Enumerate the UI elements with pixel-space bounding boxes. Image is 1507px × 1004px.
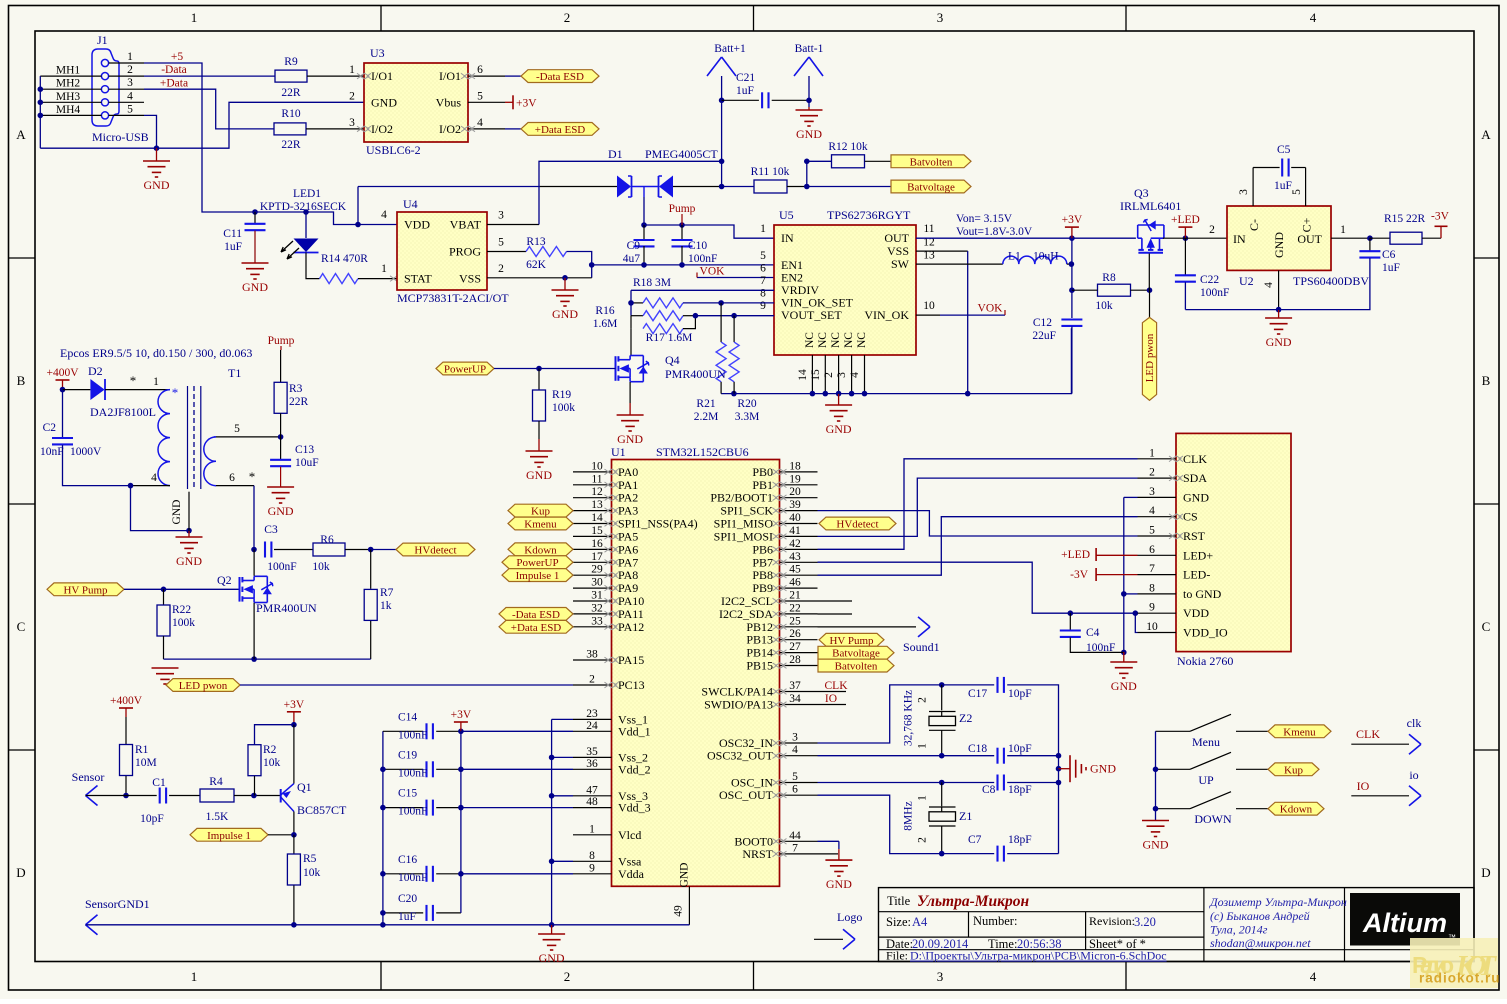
wire OSC_IN: [818, 782, 942, 784]
svg-text:PB13: PB13: [746, 633, 773, 647]
svg-text:4u7: 4u7: [623, 253, 641, 265]
svg-text:*: *: [249, 469, 256, 484]
svg-text:GND: GND: [552, 307, 578, 321]
svg-text:VOK: VOK: [700, 266, 726, 278]
svg-text:radiokot.ru: radiokot.ru: [1419, 971, 1501, 986]
svg-text:18: 18: [789, 460, 801, 472]
wire I2C2_SCL stub: [818, 600, 853, 602]
svg-text:100nF: 100nF: [398, 767, 427, 779]
svg-text:GND: GND: [1111, 679, 1137, 693]
switch UP: [1156, 768, 1191, 770]
svg-text:GND: GND: [1272, 232, 1286, 258]
port Batvolten: [818, 659, 894, 672]
svg-text:8: 8: [760, 288, 766, 300]
svg-text:Batt-1: Batt-1: [795, 43, 824, 55]
svg-text:Pump: Pump: [669, 203, 696, 215]
svg-text:6: 6: [792, 784, 798, 796]
svg-text:6: 6: [1149, 544, 1155, 556]
svg-text:5: 5: [1291, 189, 1303, 195]
svg-text:+LED: +LED: [1171, 214, 1200, 226]
svg-text:Batt+1: Batt+1: [714, 43, 746, 55]
svg-text:PROG: PROG: [449, 245, 481, 259]
svg-text:3: 3: [1149, 486, 1155, 498]
svg-text:22uF: 22uF: [1032, 330, 1056, 342]
resistor R1: [125, 717, 127, 744]
svg-text:CS: CS: [1183, 510, 1198, 524]
svg-text:GND: GND: [176, 554, 202, 568]
svg-text:MCP73831T-2ACI/OT: MCP73831T-2ACI/OT: [397, 291, 509, 305]
svg-text:U4: U4: [403, 197, 418, 211]
svg-text:4: 4: [1263, 282, 1275, 288]
svg-text:PA6: PA6: [618, 542, 638, 556]
svg-text:MH1: MH1: [56, 65, 81, 77]
IC U4 MCP73831T-2ACI/OT: [397, 212, 487, 290]
svg-text:R5: R5: [303, 853, 317, 865]
svg-text:HVdetect: HVdetect: [836, 519, 878, 531]
power +LED: [1178, 226, 1192, 228]
svg-text:27: 27: [789, 641, 801, 653]
port Batvolten: [891, 155, 971, 168]
svg-text:VDD_IO: VDD_IO: [1183, 626, 1228, 640]
wire VSS U5: [916, 250, 968, 252]
svg-text:GND: GND: [826, 422, 852, 436]
svg-text:1: 1: [589, 823, 595, 835]
wire VSS: [487, 277, 592, 279]
svg-text:1: 1: [381, 263, 387, 275]
ground: [242, 262, 269, 264]
svg-text:100nF: 100nF: [1086, 642, 1115, 654]
svg-text:GND: GND: [268, 504, 294, 518]
svg-text:SWCLK/PA14: SWCLK/PA14: [701, 685, 773, 699]
svg-text:3: 3: [1238, 189, 1250, 195]
svg-text:1: 1: [1149, 447, 1155, 459]
svg-text:R20: R20: [737, 398, 756, 410]
svg-text:3.20: 3.20: [1134, 915, 1156, 929]
svg-text:Logo: Logo: [837, 910, 862, 924]
wire EN1 bus: [592, 264, 774, 266]
svg-text:Size:: Size:: [886, 915, 911, 929]
svg-text:3: 3: [498, 210, 504, 222]
svg-text:C11: C11: [223, 228, 242, 240]
diode D2: [63, 389, 91, 391]
capacitor C4: [1069, 613, 1071, 630]
svg-text:+LED: +LED: [1061, 549, 1090, 561]
switch DOWN: [1156, 808, 1191, 810]
port HV Pump: [819, 633, 884, 646]
svg-text:C5: C5: [1277, 144, 1291, 156]
svg-text:11: 11: [923, 223, 934, 235]
svg-text:Ультра-Микрон: Ультра-Микрон: [917, 893, 1030, 910]
svg-text:IN: IN: [1233, 232, 1246, 246]
svg-text:R18 3M: R18 3M: [633, 277, 671, 289]
svg-text:25: 25: [789, 615, 801, 627]
connector J1 Micro-USB: [92, 49, 119, 126]
svg-text:Altium: Altium: [1362, 908, 1447, 938]
svg-text:Batvolten: Batvolten: [910, 156, 953, 168]
wire Vdd bus: [461, 730, 573, 732]
svg-text:37: 37: [789, 680, 801, 692]
svg-text:I/O1: I/O1: [439, 69, 461, 83]
svg-text:OSC32_OUT: OSC32_OUT: [707, 749, 774, 763]
svg-text:Vout=1.8V-3.0V: Vout=1.8V-3.0V: [956, 226, 1033, 238]
wire usb gnd: [40, 115, 156, 148]
wire U2 out: [1331, 237, 1370, 239]
capacitor C2: [62, 390, 64, 438]
svg-text:GND: GND: [144, 178, 170, 192]
resistor R20: [733, 316, 735, 342]
wire -Data: [144, 75, 275, 77]
svg-text:3.3M: 3.3M: [735, 411, 760, 423]
transistor Q2 PMR400UN: [239, 577, 241, 602]
capacitor C6: [1369, 238, 1371, 251]
svg-text:R19: R19: [552, 389, 571, 401]
svg-text:VOUT_SET: VOUT_SET: [781, 308, 842, 322]
wire Q3 gate: [1148, 254, 1150, 291]
power +3V: [287, 711, 301, 713]
svg-text:U2: U2: [1239, 274, 1254, 288]
svg-text:BC857CT: BC857CT: [297, 803, 347, 817]
wire PB7-VDD: [818, 562, 1138, 613]
svg-text:38: 38: [586, 649, 598, 661]
svg-text:1.6M: 1.6M: [593, 318, 618, 330]
resistor R3: [280, 350, 282, 382]
svg-text:Q2: Q2: [217, 573, 232, 587]
svg-text:7: 7: [760, 275, 766, 287]
svg-text:Pump: Pump: [268, 335, 295, 347]
svg-text:VDD: VDD: [1183, 606, 1209, 620]
svg-text:100nF: 100nF: [398, 806, 427, 818]
svg-text:C20: C20: [398, 893, 417, 905]
wire pump node: [644, 197, 774, 238]
svg-text:2.2M: 2.2M: [694, 411, 719, 423]
resistor R5: [293, 835, 295, 854]
port PowerUP: [502, 556, 573, 569]
wire VIN_OK: [916, 314, 940, 316]
svg-text:GND: GND: [1143, 838, 1169, 852]
svg-text:1: 1: [191, 969, 198, 984]
wire MH bus: [40, 75, 101, 77]
power +3V: [505, 101, 513, 103]
svg-text:2: 2: [349, 90, 355, 102]
svg-text:R15 22R: R15 22R: [1384, 213, 1426, 225]
port Batvoltage: [891, 180, 971, 193]
svg-text:GND: GND: [371, 95, 397, 109]
svg-text:PB6: PB6: [752, 542, 773, 556]
port +Data ESD: [499, 620, 573, 633]
diode D1 PMEG4005CT: [617, 176, 631, 198]
resistor R16: [631, 315, 643, 317]
svg-text:PA10: PA10: [618, 594, 644, 608]
svg-text:to GND: to GND: [1183, 587, 1222, 601]
svg-text:PB9: PB9: [752, 581, 773, 595]
svg-text:Batvoltage: Batvoltage: [907, 182, 955, 194]
svg-text:SPI1_SCK: SPI1_SCK: [720, 504, 773, 518]
svg-text:CLK: CLK: [1183, 452, 1207, 466]
wire PROG: [487, 251, 526, 253]
Altium logo: [1350, 893, 1460, 946]
svg-text:10uH: 10uH: [1033, 251, 1059, 263]
svg-text:SPI1_NSS(PA4): SPI1_NSS(PA4): [618, 517, 698, 531]
svg-text:47: 47: [586, 784, 598, 796]
svg-text:3: 3: [349, 117, 355, 129]
resistor R7: [370, 550, 372, 589]
svg-text:C12: C12: [1033, 317, 1052, 329]
svg-text:2: 2: [564, 10, 571, 25]
svg-text:GND: GND: [526, 468, 552, 482]
capacitor C3: [264, 542, 266, 558]
svg-text:R11 10k: R11 10k: [751, 166, 790, 178]
svg-text:46: 46: [789, 577, 801, 589]
svg-text:IO: IO: [825, 693, 837, 705]
svg-text:B: B: [17, 373, 26, 388]
svg-text:100k: 100k: [172, 617, 195, 629]
svg-text:NC: NC: [804, 332, 816, 348]
svg-text:R14 470R: R14 470R: [321, 253, 368, 265]
svg-text:MH2: MH2: [56, 78, 81, 90]
svg-text:PB7: PB7: [752, 555, 773, 569]
svg-text:PowerUP: PowerUP: [516, 557, 558, 569]
svg-text:10k: 10k: [312, 561, 330, 573]
svg-text:TPS60400DBV: TPS60400DBV: [1293, 274, 1369, 288]
svg-text:3: 3: [127, 77, 133, 89]
svg-text:17: 17: [591, 551, 603, 563]
svg-text:C2: C2: [43, 422, 57, 434]
svg-text:+3V: +3V: [1062, 214, 1083, 226]
svg-text:R16: R16: [595, 305, 614, 317]
svg-text:R4: R4: [209, 776, 223, 788]
svg-text:19: 19: [789, 473, 801, 485]
capacitor C11: [254, 212, 256, 224]
svg-text:1: 1: [349, 64, 355, 76]
svg-text:C14: C14: [398, 711, 417, 723]
wire T1 core gnd: [188, 492, 190, 531]
svg-text:CLK: CLK: [1356, 727, 1380, 741]
svg-text:GND: GND: [796, 127, 822, 141]
wire OSC32_IN: [818, 685, 942, 743]
resistor R15: [1370, 237, 1390, 239]
resistor R4: [200, 789, 234, 802]
svg-text:PA0: PA0: [618, 465, 638, 479]
port Sound1: [818, 626, 917, 628]
svg-text:C6: C6: [1382, 249, 1396, 261]
svg-text:C7: C7: [968, 834, 982, 846]
svg-text:-3V: -3V: [1070, 569, 1089, 581]
svg-text:C4: C4: [1086, 627, 1100, 639]
title block: [879, 888, 1475, 962]
svg-text:2: 2: [1209, 224, 1215, 236]
wire PB6-CLK: [818, 459, 1138, 550]
transistor Q1 BC857CT: [280, 789, 282, 803]
svg-text:1: 1: [1340, 224, 1346, 236]
svg-text:DA2JF8100L: DA2JF8100L: [90, 405, 156, 419]
wire +3V rail: [916, 237, 1136, 239]
resistor R2: [255, 725, 294, 745]
port Kdown: [1268, 802, 1324, 815]
wire R17 to Q4: [630, 329, 632, 356]
svg-text:10uF: 10uF: [295, 457, 319, 469]
svg-text:Vdd_1: Vdd_1: [618, 724, 651, 738]
svg-text:VOK: VOK: [978, 303, 1004, 315]
wire +Data: [144, 89, 274, 129]
svg-text:1uF: 1uF: [736, 85, 754, 97]
port Kdown: [508, 543, 573, 556]
svg-text:8: 8: [1149, 582, 1155, 594]
wire U5 NC pins: [811, 355, 813, 394]
svg-text:SWDIO/PA13: SWDIO/PA13: [704, 698, 773, 712]
svg-text:2: 2: [589, 674, 595, 686]
ground: [1278, 310, 1280, 318]
capacitor C13: [280, 437, 282, 460]
resistor R22: [163, 589, 165, 605]
ground: [838, 394, 840, 405]
svg-text:39: 39: [789, 499, 801, 511]
svg-text:PB1: PB1: [752, 478, 773, 492]
svg-text:44: 44: [789, 830, 801, 842]
svg-text:+Data ESD: +Data ESD: [511, 622, 562, 634]
svg-text:L1: L1: [1008, 251, 1021, 263]
transistor Q3 IRLML6401: [1138, 220, 1164, 253]
power -3V: [1440, 226, 1442, 238]
wire OSC32_OUT: [818, 755, 942, 757]
svg-text:VSS: VSS: [887, 244, 909, 258]
wire T1 pin6: [216, 485, 254, 487]
port Impulse 1: [502, 569, 573, 582]
svg-text:R8: R8: [1102, 272, 1116, 284]
svg-text:I/O2: I/O2: [439, 122, 461, 136]
svg-text:40: 40: [789, 512, 801, 524]
svg-text:6: 6: [477, 64, 483, 76]
svg-text:T1: T1: [228, 366, 241, 380]
svg-text:10nF: 10nF: [40, 446, 64, 458]
wire MOSI-SDA: [818, 478, 1138, 536]
ground: [564, 278, 566, 290]
resistor R11: [754, 180, 787, 193]
svg-text:5: 5: [477, 90, 483, 102]
svg-text:U1: U1: [611, 445, 626, 459]
svg-text:-Data ESD: -Data ESD: [512, 609, 560, 621]
svg-text:R10: R10: [281, 108, 300, 120]
svg-text:A: A: [16, 127, 26, 142]
svg-text:R2: R2: [263, 744, 277, 756]
svg-text:18pF: 18pF: [1008, 784, 1032, 796]
power +400V: [56, 379, 70, 381]
svg-text:22R: 22R: [281, 139, 301, 151]
svg-text:3: 3: [792, 732, 798, 744]
ground: [808, 107, 810, 110]
svg-text:io: io: [1409, 768, 1418, 782]
svg-text:+Data: +Data: [160, 78, 188, 90]
svg-text:PA8: PA8: [618, 568, 638, 582]
svg-text:20: 20: [789, 486, 801, 498]
svg-text:PB12: PB12: [746, 620, 773, 634]
svg-text:C8: C8: [982, 784, 996, 796]
svg-text:4: 4: [151, 472, 157, 484]
svg-text:PA9: PA9: [618, 581, 638, 595]
wire OSC_OUT: [818, 795, 942, 853]
LED LED1 KPTD-3216SECK: [305, 212, 307, 238]
svg-text:33: 33: [591, 615, 603, 627]
svg-text:Kmenu: Kmenu: [524, 519, 557, 531]
svg-text:9: 9: [1149, 602, 1155, 614]
svg-text:U3: U3: [370, 46, 385, 60]
svg-text:4: 4: [792, 744, 798, 756]
svg-text:GND: GND: [679, 863, 691, 888]
svg-text:PB14: PB14: [746, 646, 773, 660]
svg-text:100k: 100k: [552, 402, 575, 414]
port Kup: [1268, 763, 1319, 776]
port LED pwon: [166, 679, 240, 692]
resistor R12: [807, 160, 832, 162]
wire VBAT: [487, 224, 539, 226]
resistor R10: [274, 123, 306, 135]
svg-text:R9: R9: [284, 56, 298, 68]
svg-text:41: 41: [789, 525, 801, 537]
svg-text:23: 23: [586, 708, 598, 720]
svg-text:+400V: +400V: [110, 695, 143, 707]
svg-text:48: 48: [586, 796, 598, 808]
svg-text:Sound1: Sound1: [903, 640, 940, 654]
svg-text:PA11: PA11: [618, 607, 644, 621]
power +3V: [1065, 226, 1079, 228]
svg-text:35: 35: [586, 746, 598, 758]
svg-text:1.5K: 1.5K: [206, 811, 229, 823]
svg-text:R3: R3: [289, 383, 303, 395]
svg-text:I/O2: I/O2: [371, 122, 393, 136]
svg-text:DOWN: DOWN: [1194, 812, 1232, 826]
svg-text:IO: IO: [1357, 779, 1370, 793]
svg-text:Vdd_3: Vdd_3: [618, 801, 651, 815]
svg-text:6: 6: [229, 472, 235, 484]
svg-text:HV Pump: HV Pump: [63, 584, 108, 596]
svg-text:1k: 1k: [380, 600, 392, 612]
svg-text:49: 49: [673, 905, 685, 917]
svg-text:5: 5: [127, 103, 133, 115]
svg-text:28: 28: [789, 654, 801, 666]
svg-text:VSS: VSS: [459, 272, 481, 286]
wire button common: [1155, 731, 1157, 808]
svg-text:10k: 10k: [303, 867, 321, 879]
svg-text:C13: C13: [295, 444, 314, 456]
radiokot watermark: [1410, 938, 1498, 988]
svg-text:4: 4: [477, 117, 483, 129]
ground: [152, 667, 179, 669]
svg-text:UP: UP: [1198, 773, 1214, 787]
svg-text:10M: 10M: [135, 757, 157, 769]
svg-text:Revision:: Revision:: [1089, 914, 1135, 928]
svg-text:C18: C18: [968, 743, 987, 755]
svg-text:Epcos ER9.5/5 10, d0.150 / 300: Epcos ER9.5/5 10, d0.150 / 300, d0.063: [60, 346, 252, 360]
svg-text:R7: R7: [380, 587, 394, 599]
svg-text:4: 4: [127, 90, 133, 102]
svg-text:13: 13: [591, 499, 603, 511]
svg-text:IN: IN: [781, 231, 794, 245]
wire VDD_IO: [1135, 613, 1137, 632]
port Kmenu: [1268, 725, 1331, 738]
svg-text:C17: C17: [968, 688, 987, 700]
svg-text:4: 4: [1149, 505, 1155, 517]
wire T1 pin5: [216, 436, 281, 438]
svg-text:PB15: PB15: [746, 659, 773, 673]
svg-text:3: 3: [937, 10, 944, 25]
svg-text:D: D: [16, 865, 25, 880]
svg-text:Vdd_2: Vdd_2: [618, 762, 651, 776]
resistor R13: [526, 247, 567, 257]
ground: [629, 403, 631, 415]
svg-text:NC: NC: [817, 332, 829, 348]
capacitor C5: [1252, 168, 1254, 207]
wire to D1: [358, 186, 540, 188]
svg-text:22: 22: [789, 602, 801, 614]
